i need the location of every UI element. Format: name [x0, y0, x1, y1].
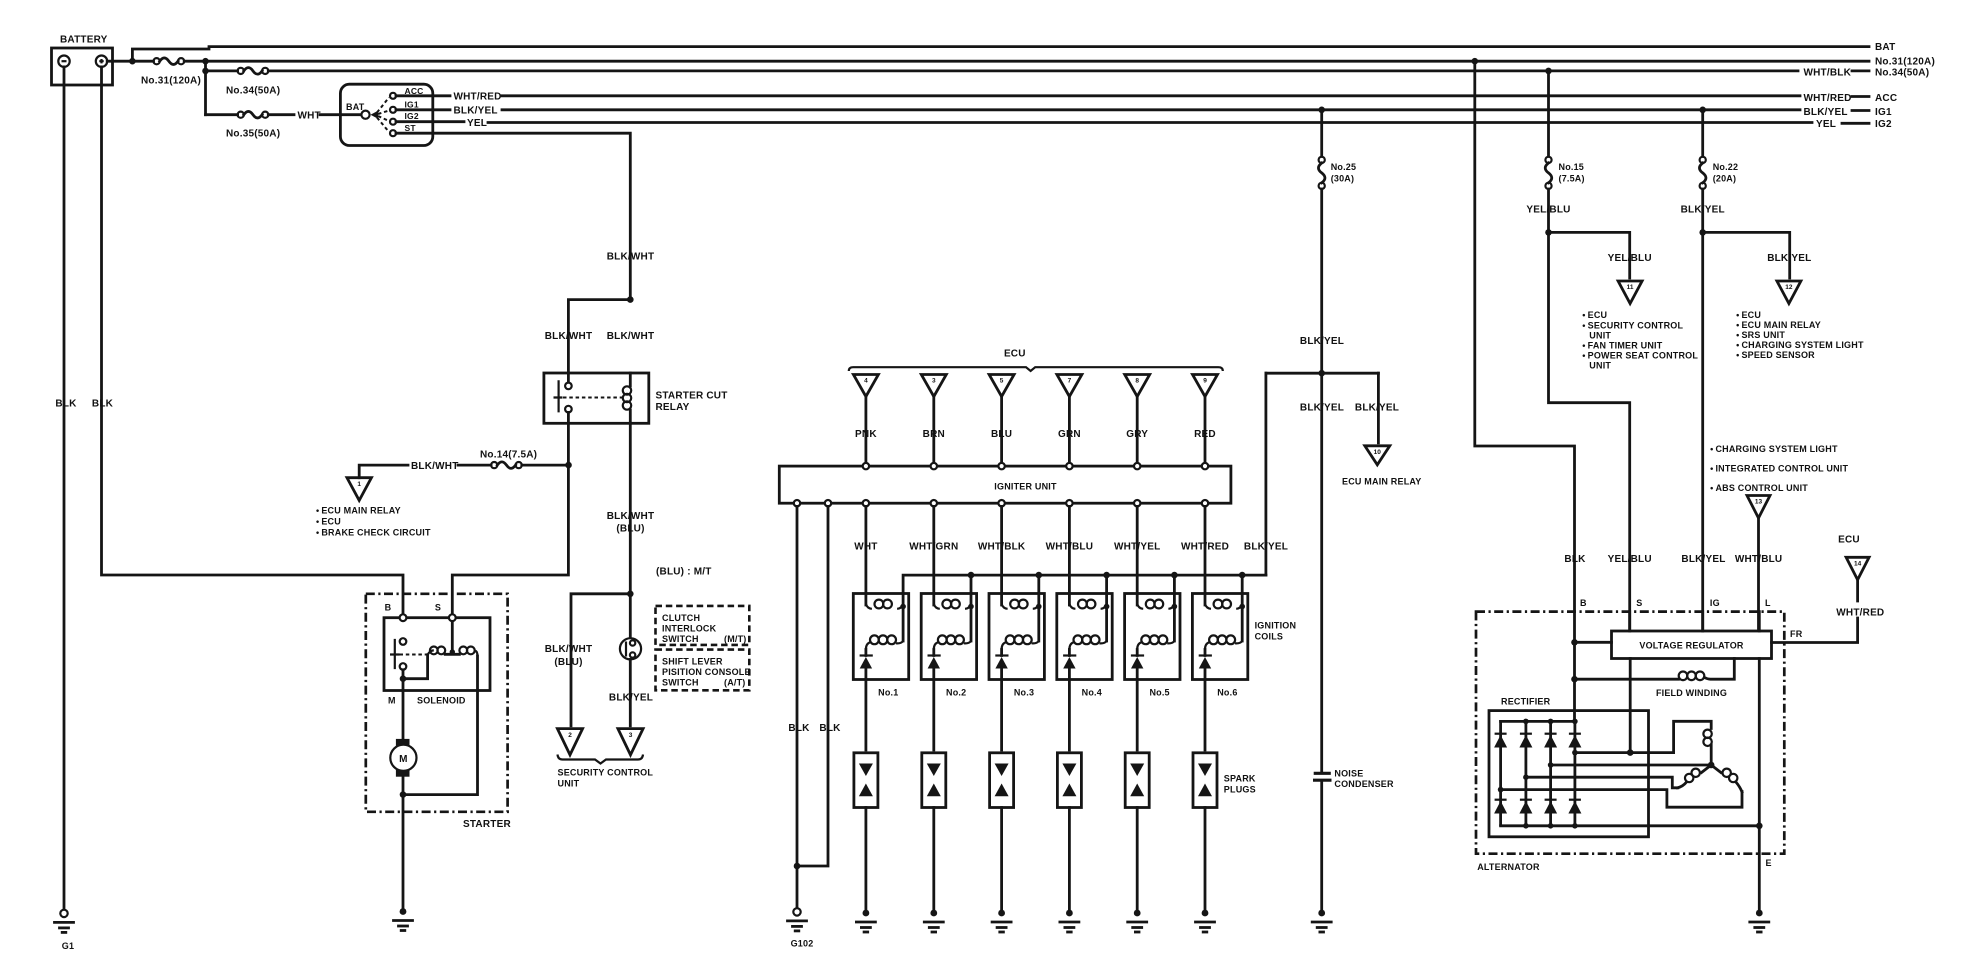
wire WHT/RED ACC bus [396, 92, 1869, 104]
battery [52, 35, 113, 86]
svg-text:2: 2 [568, 732, 572, 739]
svg-text:• CHARGING SYSTEM LIGHT: • CHARGING SYSTEM LIGHT [1710, 444, 1838, 454]
label spark plugs [1224, 774, 1256, 795]
svg-text:BLK/WHT: BLK/WHT [607, 252, 655, 263]
wire BLK/YEL to coil bus [1244, 373, 1288, 575]
svg-text:BLK/WHT: BLK/WHT [411, 461, 459, 472]
wire igniter BLK right [794, 506, 841, 869]
svg-text:G1: G1 [62, 941, 74, 951]
fuse No.34(50A) [226, 68, 280, 97]
wire WHT/BLK No.34 bus [206, 68, 1870, 79]
igniter top terminals [863, 463, 1209, 469]
svg-text:No.31(120A): No.31(120A) [1875, 57, 1935, 68]
svg-text:INTERLOCK: INTERLOCK [662, 624, 717, 634]
svg-text:NOISE: NOISE [1334, 769, 1363, 779]
svg-text:7: 7 [1068, 378, 1072, 385]
svg-text:BLK: BLK [55, 399, 77, 410]
wires igniter to ignition coils [854, 506, 1229, 605]
wire BLK/YEL IG1 bus [396, 106, 1869, 118]
svg-text:• CHARGING SYSTEM LIGHT: • CHARGING SYSTEM LIGHT [1736, 340, 1864, 350]
svg-text:12: 12 [1785, 284, 1793, 291]
svg-text:M: M [399, 754, 408, 765]
svg-text:G102: G102 [791, 939, 814, 949]
wire WHT/BLU to alternator L [1735, 518, 1783, 629]
wire B to voltage regulator [1571, 639, 1611, 646]
labels right edge [1875, 42, 1935, 130]
svg-text:PNK: PNK [855, 429, 877, 440]
svg-text:• POWER SEAT CONTROL: • POWER SEAT CONTROL [1582, 351, 1698, 361]
solenoid [384, 618, 490, 706]
starter motor [390, 679, 416, 910]
svg-text:(A/T): (A/T) [724, 678, 746, 688]
svg-text:BLU: BLU [991, 429, 1012, 440]
svg-text:• FAN TIMER UNIT: • FAN TIMER UNIT [1582, 341, 1662, 351]
svg-text:PISITION CONSOLE: PISITION CONSOLE [662, 667, 751, 677]
svg-text:ECU: ECU [1004, 349, 1026, 360]
wire coil supply bus [903, 575, 1266, 604]
svg-text:No.4: No.4 [1082, 688, 1102, 698]
ground noise condenser [1312, 910, 1331, 932]
svg-text:SECURITY CONTROL: SECURITY CONTROL [558, 768, 654, 778]
ignition switch [340, 84, 432, 145]
ground G1 [55, 910, 75, 951]
svg-text:No.14(7.5A): No.14(7.5A) [480, 450, 537, 461]
rectifier box [1489, 697, 1649, 837]
wire No.31 drop to alternator B [1472, 58, 1587, 719]
svg-text:IG1: IG1 [1875, 107, 1892, 118]
rectifier diodes [1494, 719, 1759, 829]
svg-text:GRN: GRN [1058, 429, 1081, 440]
fuse No.22(20A) [1699, 107, 1738, 189]
brace security control unit [558, 755, 654, 789]
connector triangle 14 [1846, 557, 1869, 580]
fuse No.14(7.5A) [480, 450, 537, 469]
svg-text:BLK/YEL: BLK/YEL [609, 693, 653, 704]
svg-text:(BLU): (BLU) [554, 657, 582, 668]
list ECU main relay srs [1736, 310, 1864, 360]
svg-text:• INTEGRATED CONTROL UNIT: • INTEGRATED CONTROL UNIT [1710, 464, 1848, 474]
svg-text:RECTIFIER: RECTIFIER [1501, 697, 1551, 707]
svg-text:SWITCH: SWITCH [662, 634, 699, 644]
label BLK/YEL supply [0, 0, 1, 1]
svg-text:M: M [388, 696, 396, 706]
svg-text:BLK/YEL: BLK/YEL [1244, 542, 1288, 553]
wire WHT/RED FR [1772, 580, 1885, 643]
wire igniter BLK left [788, 506, 810, 909]
svg-text:WHT/YEL: WHT/YEL [1114, 542, 1160, 553]
svg-text:• ECU: • ECU [316, 517, 341, 527]
wire branch to triangle 12 [1703, 232, 1812, 278]
svg-text:No.22: No.22 [1713, 162, 1739, 172]
wire No.31 bus [107, 58, 1869, 65]
wire S to VR [1628, 612, 1631, 631]
igniter unit box [779, 466, 1231, 503]
svg-text:WHT/RED: WHT/RED [1804, 93, 1852, 104]
svg-text:BLK/YEL: BLK/YEL [454, 106, 498, 117]
svg-text:• SRS UNIT: • SRS UNIT [1736, 330, 1785, 340]
wire BLK/YEL from No.22 [1681, 189, 1726, 629]
wire relay contact to No.14 junction [452, 412, 572, 614]
svg-text:COILS: COILS [1255, 632, 1284, 642]
alternator terminal labels [1580, 598, 1771, 608]
starter terminals [385, 603, 456, 622]
svg-text:BLK/WHT: BLK/WHT [607, 511, 655, 522]
svg-text:BLK: BLK [788, 723, 810, 734]
wire VR to stator tap [1629, 659, 1632, 753]
wire L to VR [1758, 612, 1761, 631]
wire YEL IG2 bus [396, 118, 1869, 130]
svg-text:• SECURITY CONTROL: • SECURITY CONTROL [1582, 321, 1683, 331]
svg-text:B: B [385, 603, 392, 613]
svg-text:(M/T): (M/T) [724, 634, 747, 644]
starter cut relay [544, 373, 728, 423]
svg-text:UNIT: UNIT [558, 779, 580, 789]
svg-text:CLUTCH: CLUTCH [662, 613, 700, 623]
connector triangle 3 [618, 729, 643, 755]
stator phase 2 [1678, 765, 1712, 788]
svg-text:ALTERNATOR: ALTERNATOR [1477, 862, 1540, 872]
wire ECU main relay branch [1355, 373, 1399, 443]
svg-text:BLK/YEL: BLK/YEL [1355, 403, 1399, 414]
starter box [366, 594, 512, 830]
svg-text:BRN: BRN [923, 429, 945, 440]
svg-text:YEL/BLU: YEL/BLU [1608, 554, 1652, 565]
connector triangle 10 [1342, 446, 1421, 487]
svg-text:SHIFT LEVER: SHIFT LEVER [662, 657, 723, 667]
svg-text:No.6: No.6 [1217, 688, 1237, 698]
svg-text:IG2: IG2 [1875, 119, 1892, 130]
svg-text:No.34(50A): No.34(50A) [1875, 68, 1929, 79]
svg-text:BLK/YEL: BLK/YEL [1804, 107, 1848, 118]
svg-text:BAT: BAT [1875, 42, 1895, 53]
wire BLK/YEL from No.25 [1266, 189, 1379, 377]
svg-text:• ECU MAIN RELAY: • ECU MAIN RELAY [1736, 320, 1821, 330]
fuse No.15(7.5A) [1545, 68, 1585, 189]
connector triangle 13 [1747, 496, 1770, 519]
svg-text:No.31(120A): No.31(120A) [141, 76, 201, 87]
list charging system [1710, 444, 1848, 493]
svg-text:BLK/WHT: BLK/WHT [545, 644, 593, 655]
svg-text:BLK/WHT: BLK/WHT [607, 331, 655, 342]
svg-text:5: 5 [1000, 378, 1004, 385]
svg-text:IG: IG [1710, 598, 1720, 608]
svg-text:E: E [1766, 858, 1772, 868]
svg-text:SOLENOID: SOLENOID [417, 696, 466, 706]
svg-text:No.25: No.25 [1331, 162, 1357, 172]
svg-text:• ECU: • ECU [1736, 310, 1761, 320]
svg-text:WHT/BLU: WHT/BLU [1735, 554, 1783, 565]
svg-text:S: S [1636, 598, 1642, 608]
label ignition coils [1255, 621, 1297, 642]
wires ECU to igniter with color labels [855, 397, 1216, 463]
wire battery negative BLK to G1 [55, 67, 77, 910]
svg-text:8: 8 [1135, 378, 1139, 385]
svg-text:YEL/BLU: YEL/BLU [1526, 205, 1570, 216]
svg-text:(20A): (20A) [1713, 174, 1737, 184]
connector triangle 12 [1777, 281, 1801, 304]
svg-text:WHT/RED: WHT/RED [1181, 542, 1229, 553]
svg-text:VOLTAGE REGULATOR: VOLTAGE REGULATOR [1639, 641, 1744, 651]
wire ST to starter cut relay [396, 133, 654, 299]
svg-text:• BRAKE CHECK CIRCUIT: • BRAKE CHECK CIRCUIT [316, 528, 431, 538]
stator phase 1 [1703, 730, 1711, 765]
ground G102 [788, 908, 814, 948]
node BLK/WHT split [545, 296, 655, 382]
svg-text:STARTER: STARTER [463, 819, 511, 830]
svg-text:GRY: GRY [1126, 429, 1148, 440]
svg-text:B: B [1580, 598, 1587, 608]
svg-text:WHT/RED: WHT/RED [454, 92, 502, 103]
svg-text:• SPEED SENSOR: • SPEED SENSOR [1736, 350, 1815, 360]
svg-text:YEL: YEL [1816, 119, 1836, 130]
wire YEL/BLU from No.15 [1526, 189, 1651, 629]
brace ECU [849, 349, 1223, 371]
svg-text:IGNITER UNIT: IGNITER UNIT [994, 482, 1057, 492]
svg-text:YEL/BLU: YEL/BLU [1608, 253, 1652, 264]
svg-text:11: 11 [1627, 284, 1634, 291]
svg-text:9: 9 [1203, 378, 1207, 385]
svg-text:ECU: ECU [1838, 535, 1860, 546]
svg-text:14: 14 [1854, 561, 1862, 568]
svg-text:IG2: IG2 [405, 111, 419, 121]
svg-text:WHT/GRN: WHT/GRN [909, 542, 958, 553]
field winding [1571, 659, 1734, 698]
svg-text:BLK/YEL: BLK/YEL [1767, 253, 1811, 264]
wire BLK/YEL to noise condenser [1300, 373, 1344, 771]
svg-text:3: 3 [932, 378, 936, 385]
wire branch to triangle 2 [545, 594, 631, 726]
svg-text:S: S [435, 603, 441, 613]
wire WHT to ignition switch [206, 110, 362, 121]
svg-text:STARTER CUT: STARTER CUT [656, 390, 728, 401]
svg-text:13: 13 [1755, 499, 1763, 506]
noise condenser [1315, 769, 1394, 910]
svg-text:• ECU: • ECU [1582, 310, 1607, 320]
svg-text:BAT: BAT [346, 102, 365, 112]
wire rectifier rail phase2 [1526, 777, 1678, 788]
wire rectifier rail phase3 [1501, 790, 1742, 808]
svg-text:(BLU) : M/T: (BLU) : M/T [656, 567, 712, 578]
list ECU security [1582, 310, 1698, 371]
svg-text:BLK/YEL: BLK/YEL [1681, 554, 1725, 565]
svg-text:No.34(50A): No.34(50A) [226, 86, 280, 97]
fuse No.35(50A) [226, 111, 280, 139]
svg-text:WHT/BLK: WHT/BLK [1804, 68, 1852, 79]
wire BAT bus [129, 47, 1869, 65]
connector triangle 2 [557, 729, 582, 755]
svg-text:BLK: BLK [92, 399, 114, 410]
box clutch interlock switch label [656, 606, 750, 645]
svg-text:RED: RED [1194, 429, 1216, 440]
svg-text:(30A): (30A) [1331, 174, 1355, 184]
list ECU main relay [316, 506, 431, 538]
svg-text:ACC: ACC [405, 86, 424, 96]
svg-text:4: 4 [864, 378, 868, 385]
fuse No.25(30A) [1318, 107, 1356, 189]
svg-text:CONDENSER: CONDENSER [1334, 779, 1394, 789]
svg-text:UNIT: UNIT [1589, 331, 1611, 341]
connector triangle 11 [1618, 281, 1642, 304]
svg-text:IG1: IG1 [405, 99, 419, 109]
wire BLK/WHT(BLU) from relay coil [607, 423, 712, 597]
ignition coils assembly [853, 572, 1248, 750]
wire fuse feed vertical [202, 61, 209, 114]
ground alternator E [1750, 910, 1769, 932]
svg-text:BLK/YEL: BLK/YEL [1300, 403, 1344, 414]
stator phase 3 [1711, 765, 1742, 792]
svg-text:BLK/WHT: BLK/WHT [545, 331, 593, 342]
svg-text:(BLU): (BLU) [616, 524, 644, 535]
svg-text:• ABS CONTROL UNIT: • ABS CONTROL UNIT [1710, 483, 1808, 493]
fuse No.31(120A) [141, 58, 201, 87]
svg-text:(7.5A): (7.5A) [1559, 174, 1585, 184]
svg-text:ACC: ACC [1875, 93, 1897, 104]
wire rectifier rail phase1 [1575, 721, 1711, 756]
box shift lever switch label [656, 650, 751, 691]
igniter bottom terminals [794, 500, 1208, 506]
svg-text:No.3: No.3 [1014, 688, 1034, 698]
wire rectifier rail star [1551, 762, 1715, 769]
svg-text:IGNITION: IGNITION [1255, 621, 1297, 631]
svg-text:No.1: No.1 [878, 688, 898, 698]
ground starter [394, 908, 413, 930]
svg-text:L: L [1765, 598, 1771, 608]
connector triangles 4 3 5 7 8 9 [853, 375, 1217, 397]
svg-text:YEL: YEL [467, 118, 487, 129]
svg-text:ST: ST [405, 123, 417, 133]
wire branch to triangle 11 [1549, 232, 1652, 278]
svg-text:ECU MAIN RELAY: ECU MAIN RELAY [1342, 477, 1421, 487]
svg-text:3: 3 [629, 732, 633, 739]
svg-text:No.15: No.15 [1559, 162, 1585, 172]
svg-text:BLK/YEL: BLK/YEL [1300, 336, 1344, 347]
svg-text:10: 10 [1374, 449, 1382, 456]
svg-text:BLK: BLK [819, 723, 841, 734]
wire E to ground [1756, 659, 1772, 910]
svg-text:SPARK: SPARK [1224, 774, 1256, 784]
svg-text:BLK/YEL: BLK/YEL [1681, 205, 1725, 216]
connector triangle 1 [347, 478, 372, 501]
svg-text:FR: FR [1790, 629, 1803, 639]
svg-text:WHT: WHT [854, 542, 877, 553]
svg-text:WHT: WHT [298, 110, 321, 121]
svg-text:SWITCH: SWITCH [662, 678, 699, 688]
svg-text:No.35(50A): No.35(50A) [226, 129, 280, 140]
svg-text:UNIT: UNIT [1589, 361, 1611, 371]
svg-text:FIELD WINDING: FIELD WINDING [1656, 688, 1727, 698]
alternator box [1476, 612, 1784, 872]
svg-text:PLUGS: PLUGS [1224, 785, 1256, 795]
svg-text:1: 1 [357, 481, 361, 488]
svg-text:WHT/RED: WHT/RED [1836, 608, 1884, 619]
wire solenoid coil return [403, 656, 478, 795]
svg-text:WHT/BLU: WHT/BLU [1046, 542, 1094, 553]
spark plugs [854, 753, 1217, 910]
svg-text:• ECU MAIN RELAY: • ECU MAIN RELAY [316, 506, 401, 516]
svg-text:WHT/BLK: WHT/BLK [978, 542, 1026, 553]
svg-text:BLK: BLK [1564, 554, 1586, 565]
svg-text:No.2: No.2 [946, 688, 966, 698]
wire BLK/WHT to triangle 1 [359, 461, 565, 478]
clutch interlock switch [609, 594, 653, 726]
wire IG to VR [1701, 612, 1704, 631]
svg-text:No.5: No.5 [1149, 688, 1169, 698]
grounds spark plugs [856, 910, 1214, 932]
wire battery positive BLK to starter B [92, 67, 403, 615]
voltage regulator [1612, 631, 1772, 659]
svg-text:RELAY: RELAY [656, 402, 690, 413]
svg-text:BATTERY: BATTERY [60, 35, 108, 46]
label ECU 14 [1838, 535, 1860, 546]
